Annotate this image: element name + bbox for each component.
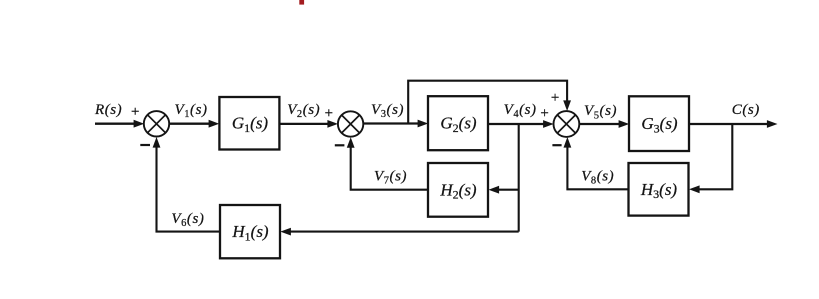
svg-text:G2(s): G2(s) [440,114,477,135]
svg-text:G1(s): G1(s) [232,114,269,135]
svg-text:+: + [130,104,140,120]
wire G1 to S2 [279,120,338,128]
svg-text:C(s): C(s) [732,102,760,118]
svg-text:H2(s): H2(s) [439,180,477,201]
wire output node down to H3 input [689,124,732,193]
summing junction S1 [144,111,169,136]
wire S2 to G2 [363,120,428,128]
summing junction S2 [338,111,363,136]
block H2 [428,163,488,217]
label V6(s) [171,211,204,229]
wire S1 to G1 [169,120,219,128]
svg-text:R(s): R(s) [94,102,122,118]
svg-text:V3(s): V3(s) [371,102,404,120]
label V5(s) [584,103,617,121]
svg-text:V8(s): V8(s) [581,169,614,187]
svg-text:V7(s): V7(s) [374,169,407,187]
svg-text:G3(s): G3(s) [641,114,678,135]
bottom wire from H2-drop node to H1 input [280,228,518,236]
label V7(s) [374,169,407,187]
svg-text:H3(s): H3(s) [640,180,678,201]
wire H3 output up to summer S3 bottom [564,137,629,189]
svg-text:+: + [550,90,560,106]
red cropped title descender [299,0,304,5]
label R(s) [94,102,122,118]
label V3(s) [371,102,404,120]
block G3 [629,96,689,151]
feedforward wire V3 node up and over to summer S3 top [408,81,571,124]
label V4(s) [504,102,537,120]
block G1 [219,97,279,150]
svg-text:V2(s): V2(s) [287,102,320,120]
svg-text:+: + [539,106,549,122]
minus sign at summer S2 bottom input [335,144,345,146]
wire G2 to S3 [488,120,554,128]
wire V4 node down to H2 input [489,124,519,232]
minus sign at summer S1 bottom input [140,144,150,146]
svg-text:V5(s): V5(s) [584,103,617,121]
label V2(s) [287,102,320,120]
block G2 [428,96,488,150]
svg-text:V4(s): V4(s) [504,102,537,120]
wire H2 output up to summer S2 bottom [347,137,428,190]
svg-text:V6(s): V6(s) [171,211,204,229]
svg-text:V1(s): V1(s) [175,102,208,120]
plus sign at summer S3 top input [550,90,560,106]
plus sign at summer S2 left input [324,106,334,122]
wire G3 to output [689,120,778,128]
wire R(s) input [95,120,144,128]
svg-text:+: + [324,106,334,122]
plus sign at summer S1 left input [130,104,140,120]
wire H1 output up to summer S1 bottom [153,137,220,232]
minus sign at summer S3 bottom input [552,144,561,146]
label C(s) [732,102,760,118]
block H3 [629,163,689,216]
summing junction S3 [554,111,580,137]
label V1(s) [175,102,208,120]
wire S3 to G3 [579,120,629,128]
svg-text:H1(s): H1(s) [231,222,269,243]
label V8(s) [581,169,614,187]
plus sign at summer S3 left input [539,106,549,122]
block H1 [220,205,280,258]
